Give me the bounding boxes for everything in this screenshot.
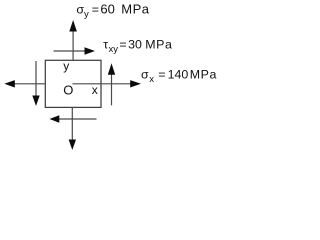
svg-text:σx=140MPa: σx=140MPa [141,68,217,85]
svg-text:x: x [92,83,98,97]
tau_xy shear arrow top face (shaft) [54,50,87,52]
sigma_y arrow bottom (shaft) [71,107,73,140]
sigma_y arrow top (head) [69,20,77,32]
sigma_y arrow bottom (head) [69,140,76,151]
shear arrow bottom face left (head) [50,115,60,122]
svg-text:O: O [63,83,73,98]
sigma_x arrow left (head) [4,80,15,87]
sigma_x arrow right (head) [130,80,141,87]
svg-text:σy=60MPa: σy=60MPa [76,1,149,19]
sigma_x arrow left (shaft) [14,83,45,85]
shear arrow left face down (head) [32,96,39,107]
shear arrow right face up (shaft) [111,75,113,106]
shear arrow bottom face left (shaft) [59,118,97,120]
shear arrow left face down (shaft) [35,61,37,96]
stress element square [45,60,101,107]
x axis with sigma_x arrow right (shaft) [73,83,132,85]
sigma_y arrow top (shaft) [72,31,74,61]
tau_xy shear arrow top face (head) [85,47,96,54]
svg-text:τxy=30MPa: τxy=30MPa [103,38,172,55]
svg-text:y: y [63,59,69,73]
shear arrow right face up (head) [108,63,115,75]
